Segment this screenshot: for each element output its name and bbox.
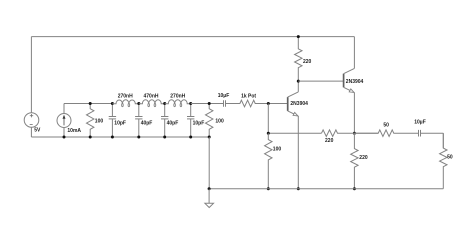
- junction R1 top: [89, 102, 92, 105]
- svg-text:40pF: 40pF: [141, 120, 153, 126]
- capacitor C5 10uF coupling: [223, 100, 225, 107]
- svg-text:10pF: 10pF: [193, 120, 205, 126]
- wire mid vertical gnd link: [208, 137, 210, 189]
- junction R2 top: [208, 102, 211, 105]
- resistor R8 50 (output series): [354, 130, 418, 137]
- svg-text:100: 100: [215, 118, 224, 124]
- junction C2 top: [137, 102, 140, 105]
- resistor R1 100 (source termination): [87, 104, 94, 138]
- ground symbol: [208, 189, 210, 203]
- junction C3 top: [163, 102, 166, 105]
- svg-text:2N3904: 2N3904: [346, 79, 364, 85]
- junction R2 bottom: [208, 136, 211, 139]
- junction R1 bottom: [89, 136, 92, 139]
- voltage source V1 5V: [24, 113, 39, 128]
- capacitor C6 10uF output: [418, 130, 420, 137]
- wire 5V bottom lead: [30, 127, 32, 137]
- current source I1 lead bottom: [63, 128, 65, 138]
- junction C1 top: [111, 102, 114, 105]
- transistor Q2 2N3904: [343, 74, 345, 88]
- wire ladder rail seg2: [191, 103, 224, 105]
- svg-text:40pF: 40pF: [167, 120, 179, 126]
- resistor R6 220 (feedback): [322, 130, 355, 137]
- capacitor C4 10pF: [190, 104, 192, 117]
- junction C1 bottom: [111, 136, 114, 139]
- svg-text:10pF: 10pF: [114, 120, 126, 126]
- junction top rail R4: [297, 35, 300, 38]
- svg-text:470nH: 470nH: [143, 94, 158, 100]
- wire cap to load corner: [421, 132, 444, 134]
- wire bottom rail 1: [31, 136, 209, 138]
- junction R5 bottom: [353, 187, 356, 190]
- junction Q2 emitter node: [353, 132, 356, 135]
- junction C4 top: [189, 102, 192, 105]
- resistor R2 100 (load termination): [206, 104, 213, 138]
- svg-text:270nH: 270nH: [118, 94, 133, 100]
- svg-text:100: 100: [95, 118, 104, 124]
- wire pot to base: [255, 103, 287, 105]
- junction C3 bottom: [163, 136, 166, 139]
- wire left vertical (5V top lead): [30, 37, 32, 113]
- capacitor C1 10pF: [111, 104, 113, 117]
- transistor Q1 2N3904: [287, 97, 289, 111]
- wire load corner down: [442, 133, 444, 148]
- inductor L2 470nH: [139, 100, 165, 104]
- junction I1-bottom: [63, 136, 66, 139]
- junction Q1 collector node: [297, 80, 300, 83]
- junction Q1 base node: [267, 102, 270, 105]
- svg-text:100: 100: [273, 146, 282, 152]
- inductor L3 270nH: [165, 100, 191, 104]
- junction Q1 emitter bottom: [297, 187, 300, 190]
- svg-text:10µF: 10µF: [218, 93, 230, 99]
- capacitor C3 40pF: [164, 104, 166, 117]
- svg-text:2N3904: 2N3904: [290, 101, 308, 107]
- svg-text:220: 220: [325, 138, 334, 144]
- svg-text:10mA: 10mA: [67, 128, 81, 134]
- capacitor C2 40pF: [138, 104, 140, 117]
- wire ladder rail seg1: [64, 103, 112, 105]
- wire emitter node to R8: [354, 132, 378, 134]
- wire cap to pot: [226, 103, 240, 105]
- junction R7 bottom: [267, 187, 270, 190]
- wire feedback left: [268, 132, 321, 134]
- wire top rail: [31, 36, 354, 38]
- svg-text:220: 220: [303, 59, 312, 65]
- current source I1 lead top: [63, 104, 65, 114]
- svg-text:50: 50: [447, 155, 453, 161]
- wire bottom rail 2: [209, 188, 443, 190]
- resistor R4 220 (Q1 collector): [295, 37, 302, 82]
- resistor R7 100 (Q1 base bias): [265, 133, 272, 189]
- svg-text:1k Pot: 1k Pot: [241, 93, 256, 99]
- svg-text:50: 50: [383, 122, 389, 128]
- wire base node down: [267, 104, 269, 134]
- resistor R3 1k Pot: [225, 100, 268, 107]
- wire collector node to Q2 base: [298, 80, 343, 82]
- svg-text:5V: 5V: [34, 128, 41, 134]
- junction gnd link bottom: [208, 187, 211, 190]
- inductor L1 270nH: [112, 100, 138, 104]
- svg-text:10µF: 10µF: [414, 120, 426, 126]
- junction C2 bottom: [137, 136, 140, 139]
- resistor R9 50 (load): [440, 133, 447, 189]
- svg-text:270nH: 270nH: [170, 94, 185, 100]
- resistor R5 220 (Q2 emitter): [351, 133, 358, 189]
- svg-text:220: 220: [359, 155, 368, 161]
- junction feedback left node: [267, 132, 270, 135]
- current source I1 10mA: [57, 114, 71, 128]
- junction C4 bottom: [189, 136, 192, 139]
